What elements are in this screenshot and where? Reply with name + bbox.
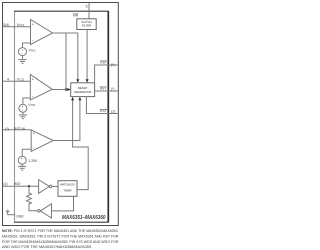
- svg-text:RST1: RST1: [100, 109, 109, 113]
- svg-text:NOTE: PIN 1 IS RST1 FOR THE MA: NOTE: PIN 1 IS RST1 FOR THE MAX6351 AND …: [2, 228, 119, 233]
- wire VCC2 pin line: [3, 80, 31, 82]
- wire U3 output to reset generator left (comparator bus): [52, 89, 68, 91]
- inverter U5 (WDI input buffer): [39, 180, 50, 194]
- wire 1.25V to ground: [21, 164, 23, 166]
- svg-text:VCC2: VCC2: [17, 77, 25, 81]
- comparator U4 (RST IN comparator): [31, 130, 53, 152]
- glitch filter block: [77, 19, 96, 30]
- junction dot at comparator output bus: [65, 88, 68, 91]
- wire RST1 output (from reset generator bottom): [86, 97, 117, 114]
- wire U4 output up into reset generator bottom: [53, 100, 80, 141]
- svg-text:(*): (*): [111, 63, 115, 67]
- comparator U3 (VCC2 comparator): [30, 75, 52, 101]
- arrowhead into reset generator left: [67, 88, 70, 91]
- wire VCC1 pin line: [3, 26, 31, 28]
- voltage reference source VTH2: [19, 104, 27, 112]
- bubble of U6: [38, 210, 41, 213]
- wire U5 output to watchdog timer: [52, 185, 58, 187]
- figure outer border frame: [3, 3, 119, 226]
- IC outline box U1: [14, 11, 109, 222]
- ground symbol (VTH1): [18, 60, 26, 64]
- wire U2 output to reset generator top: [53, 33, 78, 80]
- svg-text:GND: GND: [16, 215, 24, 219]
- svg-text:WDI: WDI: [14, 182, 21, 186]
- svg-text:(*): (*): [111, 87, 115, 91]
- footnote NOTE text: [2, 228, 119, 249]
- resistor R1 (WDI tri-state sense): [27, 186, 38, 210]
- ground symbol (GND pin): [6, 210, 10, 215]
- junction dot WDI node: [28, 185, 30, 187]
- svg-text:RST: RST: [100, 87, 107, 91]
- wire U4 inverting input to 1.25V reference: [22, 149, 31, 156]
- wire watchdog timer to U6 input: [52, 196, 74, 211]
- svg-text:MAX6352. MAX6353. PIN 5 IS RST: MAX6352. MAX6353. PIN 5 IS RST2 FOR THE …: [2, 234, 119, 239]
- wire VTH1 to ground: [22, 56, 24, 60]
- svg-text:RST: RST: [100, 61, 107, 65]
- wire RST IN pin line: [3, 129, 32, 131]
- svg-text:RST IN: RST IN: [14, 127, 26, 131]
- arrowhead into reset generator bottom (from U4): [78, 97, 81, 101]
- bubble of U5: [49, 185, 52, 188]
- inverter U6 (drives WDI sense, points left): [40, 204, 51, 218]
- svg-text:AND WDO FOR THE MAX6357/MAX635: AND WDO FOR THE MAX6357/MAX6358/MAX6359.: [2, 244, 92, 249]
- wire branch from U2 output down to comparator bus: [65, 33, 67, 90]
- svg-text:(1): (1): [111, 109, 115, 113]
- svg-text:(1): (1): [3, 182, 7, 186]
- svg-text:VTH1: VTH1: [29, 48, 37, 52]
- wire WDI pin line: [3, 185, 39, 187]
- svg-text:VCC1: VCC1: [17, 23, 25, 27]
- svg-text:FILTER: FILTER: [82, 24, 92, 28]
- svg-text:FOR THE MAX6354/MAX6355/MAX635: FOR THE MAX6354/MAX6355/MAX6356. PIN 5 I…: [2, 239, 119, 244]
- reset generator block: [71, 83, 95, 97]
- watchdog timer block: [58, 181, 77, 197]
- wire U3 inverting input to VTH2 reference: [23, 98, 30, 104]
- svg-text:GENERATOR: GENERATOR: [74, 90, 92, 94]
- svg-text:4: 4: [7, 77, 9, 81]
- wire RST output (from reset generator top right corner): [95, 65, 118, 83]
- svg-text:MAX6351–MAX6360: MAX6351–MAX6360: [62, 215, 106, 221]
- svg-text:WATCHDOG: WATCHDOG: [60, 183, 75, 187]
- svg-text:(*): (*): [5, 127, 9, 131]
- wire U2 inverting input to VTH1 reference: [23, 43, 31, 48]
- ground symbol (VTH2): [19, 115, 27, 119]
- svg-text:TIMER: TIMER: [63, 189, 71, 193]
- arrowhead into reset generator top (from U2): [76, 79, 79, 83]
- svg-text:3(4): 3(4): [3, 23, 9, 27]
- comparator U2 (VCC1 comparator): [31, 20, 53, 45]
- svg-text:VTH2: VTH2: [28, 103, 36, 107]
- ground symbol (1.25V ref): [18, 166, 26, 170]
- voltage reference source 1.25V: [18, 156, 26, 164]
- svg-text:MR: MR: [73, 14, 79, 18]
- wire watchdog timer output up to reset generator bottom: [73, 100, 89, 190]
- svg-text:1.25V: 1.25V: [28, 159, 38, 163]
- wire VTH2 to ground: [22, 112, 24, 115]
- arrowhead into reset generator top (from glitch filter): [86, 79, 89, 83]
- wire glitch filter output to reset generator top: [86, 30, 88, 81]
- svg-text:5: 5: [86, 4, 88, 8]
- wire GND pin line: [8, 214, 16, 216]
- wire MR pin line from top: [88, 3, 90, 19]
- voltage reference source VTH1: [19, 48, 27, 56]
- arrowhead into reset generator bottom (from watchdog): [71, 97, 74, 101]
- wire RESET output (middle): [95, 90, 118, 92]
